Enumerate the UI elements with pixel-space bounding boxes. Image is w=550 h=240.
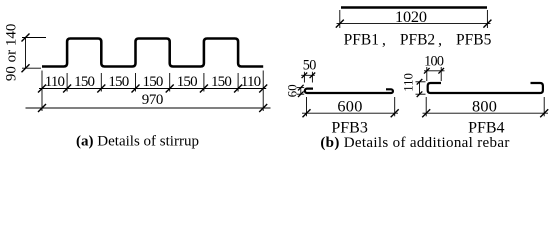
- svg-text:(b) Details of additional reba: (b) Details of additional rebar: [320, 135, 509, 151]
- dimension row 110/150 (stirrup): [38, 71, 267, 112]
- dimension 600 (PFB3 length): [302, 97, 399, 118]
- svg-text:90 or 140: 90 or 140: [3, 24, 19, 82]
- dimension 100 (PFB4 hook): [424, 53, 445, 81]
- svg-text:110: 110: [401, 73, 415, 92]
- svg-text:50: 50: [303, 57, 316, 73]
- svg-text:PFB1,PFB2,PFB5: PFB1,PFB2,PFB5: [344, 31, 492, 48]
- svg-text:600: 600: [337, 97, 362, 116]
- dimension 90 or 140: [3, 24, 46, 82]
- svg-text:(a) Details of stirrup: (a) Details of stirrup: [76, 133, 199, 149]
- svg-text:150: 150: [74, 74, 94, 90]
- rebar PFB4 (bar with hooks both ends): [428, 83, 543, 93]
- dimension 1020: [336, 7, 492, 28]
- dimension 800 (PFB4 length): [422, 97, 548, 118]
- rebar PFB3 (bar with left and right hooks): [305, 89, 393, 93]
- svg-text:800: 800: [472, 97, 497, 116]
- dimension 50 (PFB3 hook): [301, 57, 316, 82]
- dimension 110 (PFB4 height): [401, 73, 425, 97]
- svg-text:100: 100: [424, 53, 444, 69]
- dimension 60 (PFB3 height): [285, 84, 304, 97]
- stirrup bar (panel a): [42, 39, 263, 67]
- svg-text:1020: 1020: [395, 7, 427, 26]
- svg-text:110: 110: [241, 74, 261, 90]
- svg-text:970: 970: [142, 92, 163, 108]
- svg-text:150: 150: [108, 74, 128, 90]
- svg-text:110: 110: [45, 74, 65, 90]
- svg-text:150: 150: [211, 74, 231, 90]
- svg-text:150: 150: [177, 74, 197, 90]
- svg-text:150: 150: [143, 74, 163, 90]
- dimension 970 (stirrup overall): [26, 92, 271, 112]
- rebar PFB1/PFB2/PFB5 (straight bar): [341, 6, 487, 9]
- svg-text:60: 60: [285, 84, 299, 97]
